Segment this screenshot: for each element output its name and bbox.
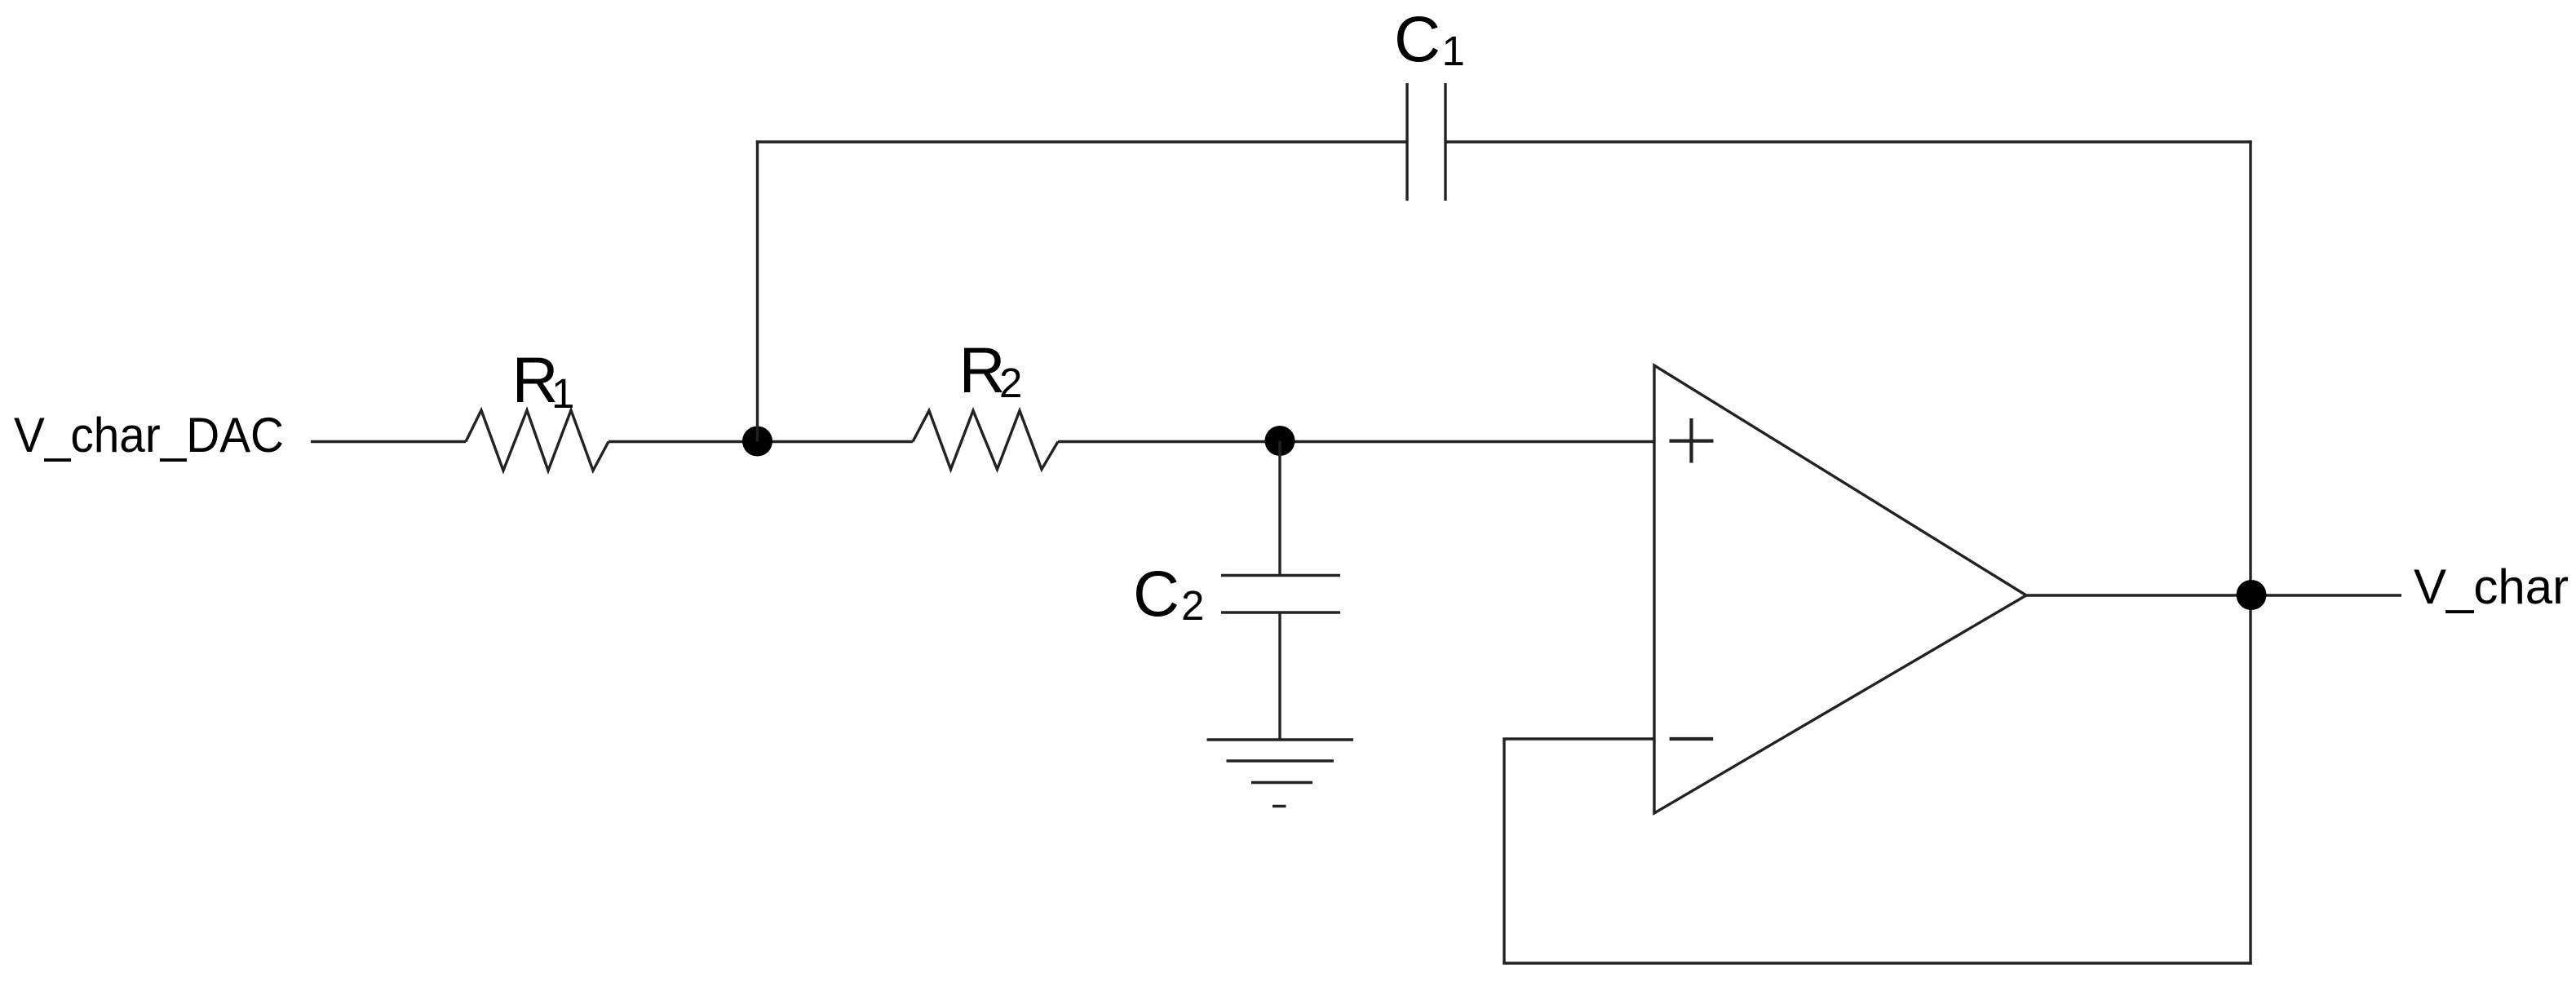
resistor R1	[466, 410, 609, 471]
label R1	[512, 343, 575, 417]
svg-text:2: 2	[999, 360, 1022, 406]
svg-text:1: 1	[1442, 28, 1465, 74]
svg-text:V_char_DAC: V_char_DAC	[14, 408, 284, 462]
label C2	[1133, 557, 1204, 630]
node A junction dot	[742, 427, 772, 457]
wire R1 to node A	[609, 440, 913, 443]
wire feedback left vertical	[1503, 739, 1505, 963]
op-amp minus input symbol	[1670, 737, 1714, 741]
wire input lead	[311, 440, 466, 443]
capacitor C2	[1221, 576, 1340, 613]
resistor R2	[913, 411, 1058, 470]
op-amp U1	[1654, 365, 2026, 813]
wire C2 to ground	[1278, 612, 1281, 740]
wire R2 to op-amp noninverting input	[1058, 440, 1654, 443]
wire feedback bottom	[1503, 962, 2251, 964]
svg-text:V_char: V_char	[2414, 559, 2569, 614]
label C1	[1394, 2, 1465, 75]
wire node A up to C1	[756, 140, 759, 441]
wire inverting input	[1503, 737, 1654, 740]
svg-text:2: 2	[1181, 582, 1204, 629]
svg-text:1: 1	[551, 370, 574, 417]
wire feedback right vertical	[2249, 140, 2251, 964]
svg-text:C: C	[1133, 557, 1180, 630]
svg-text:C: C	[1394, 2, 1441, 75]
wire node B down to C2	[1278, 441, 1281, 575]
svg-text:R: R	[959, 334, 1006, 406]
capacitor C1	[1407, 83, 1445, 201]
node C output junction dot	[2237, 580, 2267, 610]
wire top feedback right segment	[1445, 140, 2252, 143]
node B junction dot	[1265, 426, 1295, 456]
wire op-amp output	[2026, 594, 2401, 596]
wire top feedback left segment	[756, 140, 1407, 143]
ground	[1207, 740, 1354, 807]
label R2	[959, 334, 1023, 406]
op-amp plus input symbol	[1670, 418, 1714, 463]
